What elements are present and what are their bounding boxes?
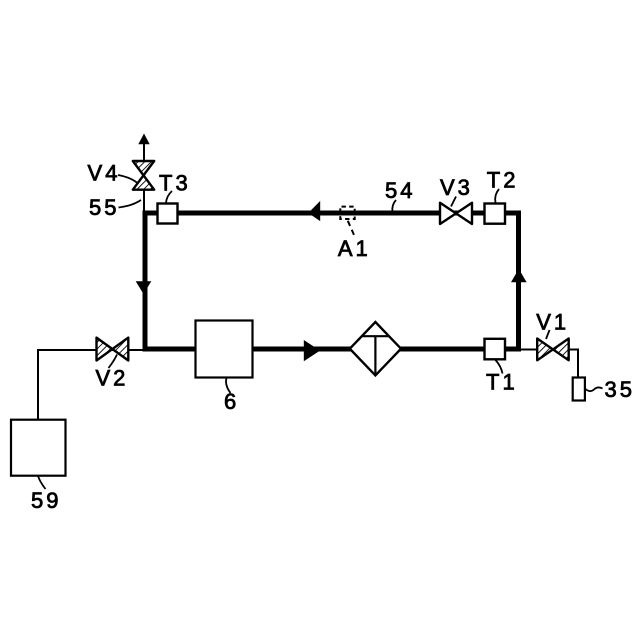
arrow right on bottom line [304,340,320,361]
label V2 [95,366,128,391]
leader T1 [496,360,503,374]
label T2 [487,167,519,192]
wire from V1 down to vessel 35 [577,349,579,380]
leader V4 [118,175,138,183]
filter symbol [350,322,401,375]
label T1 [486,369,518,394]
leader T2 [495,189,499,203]
label T3 [159,170,191,195]
vessel 35 box [573,378,585,401]
svg-text:A1: A1 [338,236,371,261]
node A1 dashed box [340,207,354,219]
arrow left on top line [308,201,320,221]
sensor T2 box [485,204,506,224]
svg-text:59: 59 [31,488,61,513]
pipe top main line [143,211,522,216]
leader A1 (dashed) [348,221,356,239]
leader V3 [451,197,456,207]
arrow down on left vertical [136,281,152,294]
valve V2 (hatched, horizontal) [97,338,129,361]
valve V4 (hatched, vertical) [133,161,154,190]
label V4 [88,161,121,186]
valve V1 (hatched, horizontal) [537,339,569,361]
label V1 [536,309,569,334]
svg-text:V1: V1 [536,309,569,334]
label 55 [89,195,119,220]
svg-text:V4: V4 [88,161,121,186]
label 35 [605,377,635,402]
leader V2 [109,355,118,369]
arrow up on right vertical [511,269,527,282]
wire from tank 59 riser [37,350,39,421]
leader 35 [586,387,603,391]
label 59 [31,488,61,513]
pipe right vertical [516,211,521,350]
pipe left vertical [143,211,148,350]
sensor T1 box [485,339,506,360]
pipe bottom main line [143,347,522,352]
svg-text:35: 35 [605,377,635,402]
label V3 [440,175,473,200]
label A1 [338,236,371,261]
svg-text:54: 54 [385,178,415,203]
arrow vent up [138,134,149,145]
wire from riser to V2 to main line [37,349,144,351]
sensor T3 box [158,204,178,224]
svg-text:V3: V3 [440,175,473,200]
tank 59 box [11,420,66,476]
label 6 [224,389,239,414]
component 6 box [196,321,253,378]
valve V3 (open, horizontal) [440,203,472,224]
svg-text:55: 55 [89,195,119,220]
wire vent line through V4 [143,138,145,211]
svg-text:6: 6 [224,389,239,414]
leader V1 [546,330,550,339]
leader 6 [226,378,231,393]
leader 55 [119,200,142,208]
leader 59 [38,476,46,489]
leader T3 [166,191,172,203]
svg-text:T2: T2 [487,167,519,192]
leader 54 [392,200,396,212]
svg-text:V2: V2 [95,366,128,391]
label 54 [385,178,415,203]
wire from T1 junction to V1 [519,349,578,351]
svg-text:T3: T3 [159,170,191,195]
